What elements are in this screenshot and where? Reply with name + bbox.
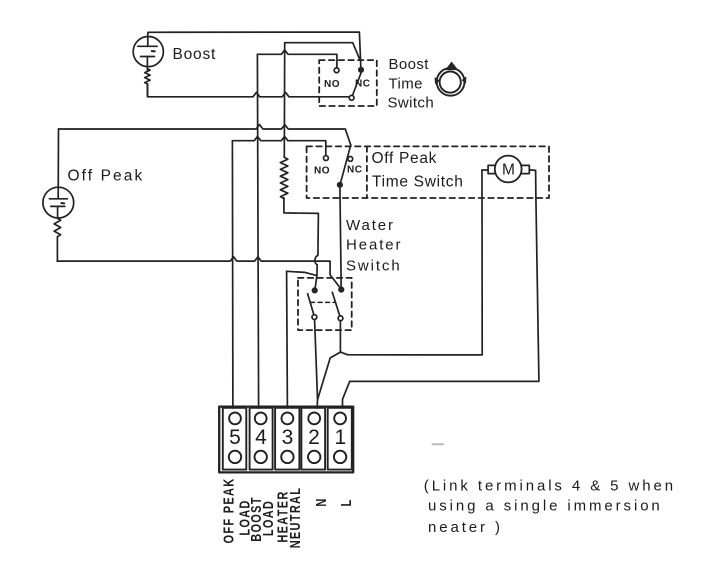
terminal numbers [229, 426, 346, 449]
svg-text:L: L [337, 498, 354, 506]
boost time switch dashed box [319, 60, 377, 106]
terminal strip 4 [250, 408, 273, 470]
wire top: Boost meter top to boost switch NC [148, 32, 361, 69]
svg-text:NO: NO [314, 165, 330, 176]
mechanical link (dashed) [311, 301, 335, 303]
off-peak switch NC contact [348, 157, 353, 162]
right pole bottom contact [338, 316, 343, 321]
off-peak switch NO contact [324, 156, 329, 161]
wire y355: junction to motor left [341, 170, 488, 355]
water heater switch right blade [332, 292, 340, 318]
terminal strip 1 [328, 408, 352, 470]
wire vertical x285: NC node down to resistor [283, 43, 285, 158]
meter M2 Off Peak (circle symbol) [43, 129, 74, 218]
svg-text:Heater: Heater [346, 236, 402, 253]
svg-text:Off Peak: Off Peak [372, 150, 438, 167]
fuse below Off Peak meter [54, 218, 61, 261]
off peak time switch dashed box [307, 146, 549, 198]
svg-text:Off Peak: Off Peak [68, 168, 145, 185]
wire: left pole bottom to terminal 2 [315, 318, 318, 409]
left pole bottom contact [312, 315, 317, 320]
wire y261: Off Peak meter bottom to water-heater right pole [57, 257, 341, 289]
svg-text:Boost: Boost [389, 56, 430, 73]
wire vertical x232: terminal 5 riser [231, 141, 234, 408]
svg-text:Switch: Switch [388, 94, 435, 111]
wire y129: Off Peak meter top to off-peak switch NC [59, 125, 351, 146]
motor M (off peak time switch) [488, 156, 529, 183]
svg-text:neater ): neater ) [428, 519, 503, 536]
terminal labels (rotated) [220, 478, 354, 549]
svg-text:Time: Time [389, 75, 423, 92]
wire y43: resistor-top node to NC junction [285, 43, 360, 60]
wire y381: motor right to terminal 1 [343, 170, 539, 408]
off-peak switch blade [340, 145, 351, 185]
boost switch NO contact [334, 68, 339, 73]
resistor (coil) [280, 157, 287, 198]
wire resistor bottom to water-heater left pole [284, 198, 319, 289]
svg-text:NC: NC [355, 79, 370, 90]
svg-text:2: 2 [308, 426, 320, 449]
wire y140: terminal-5 riser to off-peak switch NO [232, 136, 325, 157]
wire: off-peak common down to right pole [340, 185, 341, 289]
terminal screws bottom row [229, 451, 346, 463]
svg-text:(Link terminals 4 & 5 when: (Link terminals 4 & 5 when [424, 478, 676, 495]
boost switch NC contact [359, 67, 364, 72]
wire: right pole bottom to junction [339, 319, 341, 352]
note text [424, 478, 676, 536]
svg-text:Switch: Switch [346, 258, 402, 275]
svg-text:NC: NC [347, 165, 362, 176]
svg-text:using a single immersion: using a single immersion [428, 497, 663, 514]
clock icon (boost time switch) [435, 62, 466, 95]
svg-text:M: M [502, 161, 515, 178]
off peak time switch box divider [366, 146, 368, 198]
terminal strip 5 [223, 408, 247, 470]
svg-text:NO: NO [324, 79, 340, 90]
svg-text:5: 5 [229, 426, 241, 449]
water heater switch dashed box [298, 278, 352, 330]
terminal strip 3 [275, 408, 299, 470]
wire: junction diagonal to terminal 2 [318, 352, 341, 399]
wire y271: terminal-3 node to left-pole junction [287, 271, 317, 275]
terminal block outer frame [219, 407, 353, 473]
label Water Heater Switch [346, 217, 402, 275]
fuse below Boost meter [145, 69, 150, 97]
boost switch common contact [349, 95, 354, 100]
svg-text:Water: Water [346, 217, 395, 234]
left pole top contact [312, 288, 317, 293]
wire vertical x257: terminal 4 riser [257, 54, 258, 408]
terminal screws top row [229, 413, 346, 425]
meter M1 Boost (circle symbol) [133, 33, 163, 71]
label Boost Time Switch [388, 56, 435, 111]
svg-text:N: N [313, 497, 330, 506]
svg-text:Boost: Boost [173, 46, 217, 63]
svg-text:4: 4 [255, 426, 267, 449]
terminal strip 2 [301, 408, 325, 470]
label Off Peak Time Switch [372, 150, 464, 191]
svg-text:NEUTRAL: NEUTRAL [287, 487, 304, 549]
right pole top contact [339, 287, 344, 292]
svg-text:OFF PEAK: OFF PEAK [220, 478, 237, 544]
scan artifact dash [433, 443, 444, 445]
wire y97: Boost meter bottom to boost switch common [148, 84, 352, 97]
wire y54: terminal-4 riser to boost switch NO [257, 50, 337, 70]
wire vertical x286: terminal 3 riser [286, 271, 289, 408]
svg-text:Time Switch: Time Switch [372, 173, 464, 190]
water heater switch left blade [308, 294, 315, 317]
boost switch blade [352, 71, 362, 97]
svg-text:3: 3 [282, 426, 294, 449]
off-peak switch common contact [338, 182, 343, 187]
svg-text:1: 1 [334, 426, 346, 449]
